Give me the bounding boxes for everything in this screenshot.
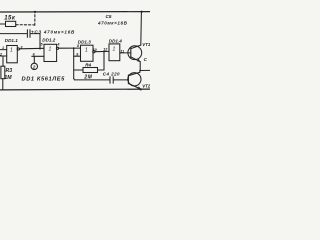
DD1.1 output bubble [17,48,19,50]
wire C4 left lead [73,79,76,80]
svg-text:11: 11 [120,49,124,53]
wire DD1.3 input pin9 [74,55,81,57]
wire VT1 collector to rail [140,12,143,45]
wire R4 left lead [74,69,83,71]
wire VT1 emitter down [139,62,141,71]
wire dashed resistor right lead [16,24,35,26]
wire R4 right lead [98,69,105,71]
wire output to right edge [140,69,150,71]
wire R4 riser to DD1.4 input [103,52,105,71]
svg-text:4: 4 [56,43,59,47]
resistor 15k body [6,21,16,26]
svg-text:DD1.3: DD1.3 [78,39,91,44]
VT2 emitter with arrow [128,83,140,89]
resistor R4 body [83,68,98,73]
node junction on rail left [34,11,36,13]
node dot feedback branch [73,47,75,49]
wire DD1.1 input pin2 [0,55,7,57]
svg-text:DD1.2: DD1.2 [42,38,55,43]
wire top supply rail [0,11,150,13]
node dot at DD1.2 input [39,48,41,50]
node circle 2 [31,63,37,69]
svg-text:2М: 2М [83,75,92,81]
wire DD1.4 out to VT1 base [120,52,131,54]
svg-text:1: 1 [113,47,116,53]
wire C4 right lead to VT2 base [114,79,129,81]
capacitor C4 plates [109,77,111,83]
wire R3 bottom lead [2,79,4,90]
op-amp DD1.1 gate box [7,46,18,63]
svg-text:VT2: VT2 [142,84,150,89]
wire VT2 collector riser [139,71,141,73]
wire vertical feedback branch [73,48,75,78]
svg-text:R4: R4 [85,62,91,67]
node dot R4 riser [103,51,105,53]
svg-text:С5: С5 [106,14,112,19]
svg-text:DD1 К561ЛЕ5: DD1 К561ЛЕ5 [22,76,66,82]
svg-text:R3: R3 [6,68,13,74]
svg-text:DD1.1: DD1.1 [5,38,18,43]
wire bottom rail [0,88,150,91]
wire DD1.3 out to DD1.4 in [95,50,109,52]
VT1 base bar [130,48,132,58]
wire C3 right lead [30,33,40,35]
svg-text:С4 220: С4 220 [103,72,120,77]
capacitor C3 plates [26,30,28,38]
wire R3 top lead [2,56,4,66]
VT2 collector [128,72,140,76]
node dot emitter junction [139,70,141,72]
op-amp DD1.2 gate box [44,44,57,61]
op-amp DD1.3 gate box [81,45,94,61]
wire DD1.1 out to DD1.2 in [19,47,44,50]
transistor VT2 circle [128,73,141,86]
VT1 collector [131,45,141,49]
svg-text:1: 1 [2,46,4,50]
svg-text:1: 1 [10,48,13,54]
svg-text:2: 2 [32,64,36,69]
wire DD1.2 input pin6 [32,55,44,57]
svg-text:1: 1 [85,48,88,54]
DD1.2 output bubble [56,47,58,49]
node junction on rail right [141,11,143,13]
transistor VT1 circle [128,46,142,60]
wire node2 stem [33,56,35,63]
svg-text:1М: 1М [4,75,12,81]
resistor R3 body [1,66,5,79]
VT2 base bar [127,75,129,84]
svg-text:1: 1 [49,47,52,53]
wire C3 drop to gate line [39,34,41,49]
svg-text:15к: 15к [4,16,16,22]
op-amp DD1.4 gate box [109,44,120,61]
svg-text:DD1.4: DD1.4 [109,38,122,43]
VT1 emitter with arrow [131,57,140,62]
wire resistor left lead [0,23,6,25]
svg-text:470мк×16В: 470мк×16В [97,21,128,26]
DD1.3 output bubble [93,51,95,53]
node dot emitter to rail [140,88,142,90]
wire dashed vertical to rail [34,13,36,26]
wire DD1.2 out to DD1.3 in [59,47,81,49]
wire DD1.1 input pin1 [0,49,7,51]
wire C3 left lead [0,33,27,35]
svg-text:+С3 470мк×16В: +С3 470мк×16В [31,29,75,34]
svg-text:VT1: VT1 [142,42,150,47]
